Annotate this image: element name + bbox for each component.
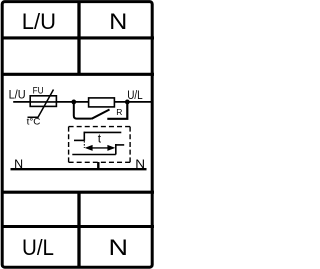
svg-text:R: R [116, 107, 122, 117]
top terminal table bottom line [1, 73, 154, 76]
wire: line through fuse body [30, 101, 56, 103]
timer right vertical [115, 144, 117, 155]
switch blade (timer contact) [92, 110, 110, 119]
bottom terminal table row divider [1, 225, 154, 228]
node junction right [125, 100, 130, 105]
bottom terminal table top line [1, 191, 154, 194]
timer module dashed enclosure [69, 127, 131, 163]
wire: timer to N line connector [97, 162, 99, 169]
svg-text:N: N [109, 235, 129, 260]
wire: left junction drop to switch branch [74, 102, 92, 119]
wire: switch fixed contact to right junction [107, 102, 127, 119]
svg-text:N: N [109, 9, 127, 34]
bottom table column divider [77, 192, 80, 268]
svg-text:L/U: L/U [22, 9, 56, 34]
outer border frame [2, 2, 152, 268]
timer symbol top bar [84, 131, 121, 133]
thermal striker diagonal of fuse [28, 90, 54, 118]
wire: main line L/U to U/L [13, 101, 152, 103]
top table column divider [77, 1, 80, 74]
timer left lead [74, 139, 84, 141]
node junction left [71, 100, 76, 105]
svg-text:U/L: U/L [22, 235, 54, 260]
top terminal table row divider [1, 36, 154, 39]
timer symbol left vertical [83, 132, 85, 141]
timer right lead [116, 144, 124, 146]
timer dotted vertical [83, 141, 85, 148]
svg-text:t°C: t°C [27, 117, 41, 127]
svg-text:FU: FU [33, 85, 44, 95]
resistor R (heating element) [89, 98, 115, 107]
timer bottom bar [72, 154, 116, 156]
svg-text:U/L: U/L [127, 90, 143, 102]
wire: N line [11, 168, 147, 170]
svg-text:L/U: L/U [9, 90, 26, 102]
adjustable time double arrow [89, 147, 111, 149]
fuse FU (thermal fuse body) [30, 96, 56, 107]
